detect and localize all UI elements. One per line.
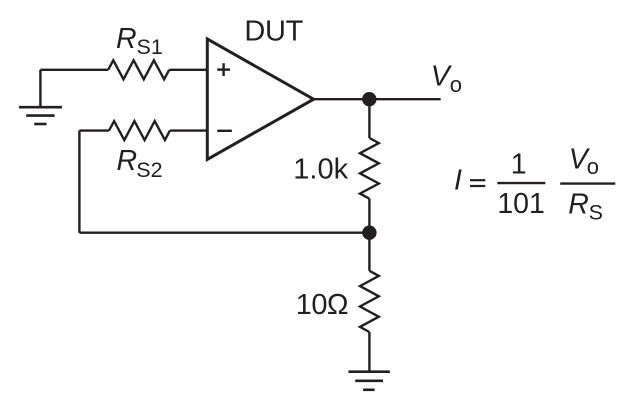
svg-text:1.0k: 1.0k bbox=[293, 154, 348, 186]
wire feedback vertical left bbox=[78, 131, 80, 233]
equation I = 1/101 Vo/RS bbox=[454, 143, 615, 224]
op-amp U1 (DUT) bbox=[207, 39, 313, 159]
wire feedback horizontal bottom bbox=[79, 231, 369, 233]
svg-text:1: 1 bbox=[511, 149, 527, 181]
resistor 1.0k bbox=[360, 138, 379, 199]
svg-text:10Ω: 10Ω bbox=[296, 289, 348, 321]
resistor RS2 bbox=[109, 121, 170, 140]
wire ground to RS1 bbox=[40, 69, 108, 71]
resistor RS1 bbox=[108, 60, 169, 79]
svg-text:o: o bbox=[450, 72, 462, 97]
ground GND1 bbox=[19, 70, 62, 124]
ground GND2 bbox=[348, 372, 390, 390]
svg-text:I: I bbox=[454, 164, 462, 196]
svg-text:101: 101 bbox=[497, 188, 545, 220]
op-amp - input marker bbox=[217, 130, 232, 132]
svg-text:R: R bbox=[568, 188, 589, 220]
svg-text:o: o bbox=[587, 154, 599, 179]
resistor 10ohm bbox=[360, 271, 379, 332]
op-amp + input marker bbox=[217, 63, 230, 76]
wire RS1 to op-amp + input bbox=[169, 69, 206, 71]
wire RS2 to op-amp - input bbox=[170, 129, 207, 131]
wire 10ohm to ground GND2 bbox=[368, 332, 370, 372]
wire 1.0k to dot2 bbox=[368, 199, 370, 233]
wire dot1 down to 1.0k resistor bbox=[368, 99, 370, 138]
svg-text:DUT: DUT bbox=[244, 15, 303, 47]
wire dot2 down to 10ohm resistor bbox=[368, 233, 370, 271]
node junction dot1 bbox=[362, 92, 376, 106]
svg-text:S2: S2 bbox=[136, 158, 162, 182]
svg-text:S: S bbox=[589, 201, 603, 225]
svg-text:R: R bbox=[116, 23, 137, 55]
wire RS2 left stub bbox=[79, 129, 109, 131]
wire op-amp output bbox=[314, 98, 441, 100]
svg-text:R: R bbox=[117, 145, 138, 177]
node junction dot2 bbox=[362, 226, 376, 240]
svg-text:S1: S1 bbox=[137, 35, 163, 59]
